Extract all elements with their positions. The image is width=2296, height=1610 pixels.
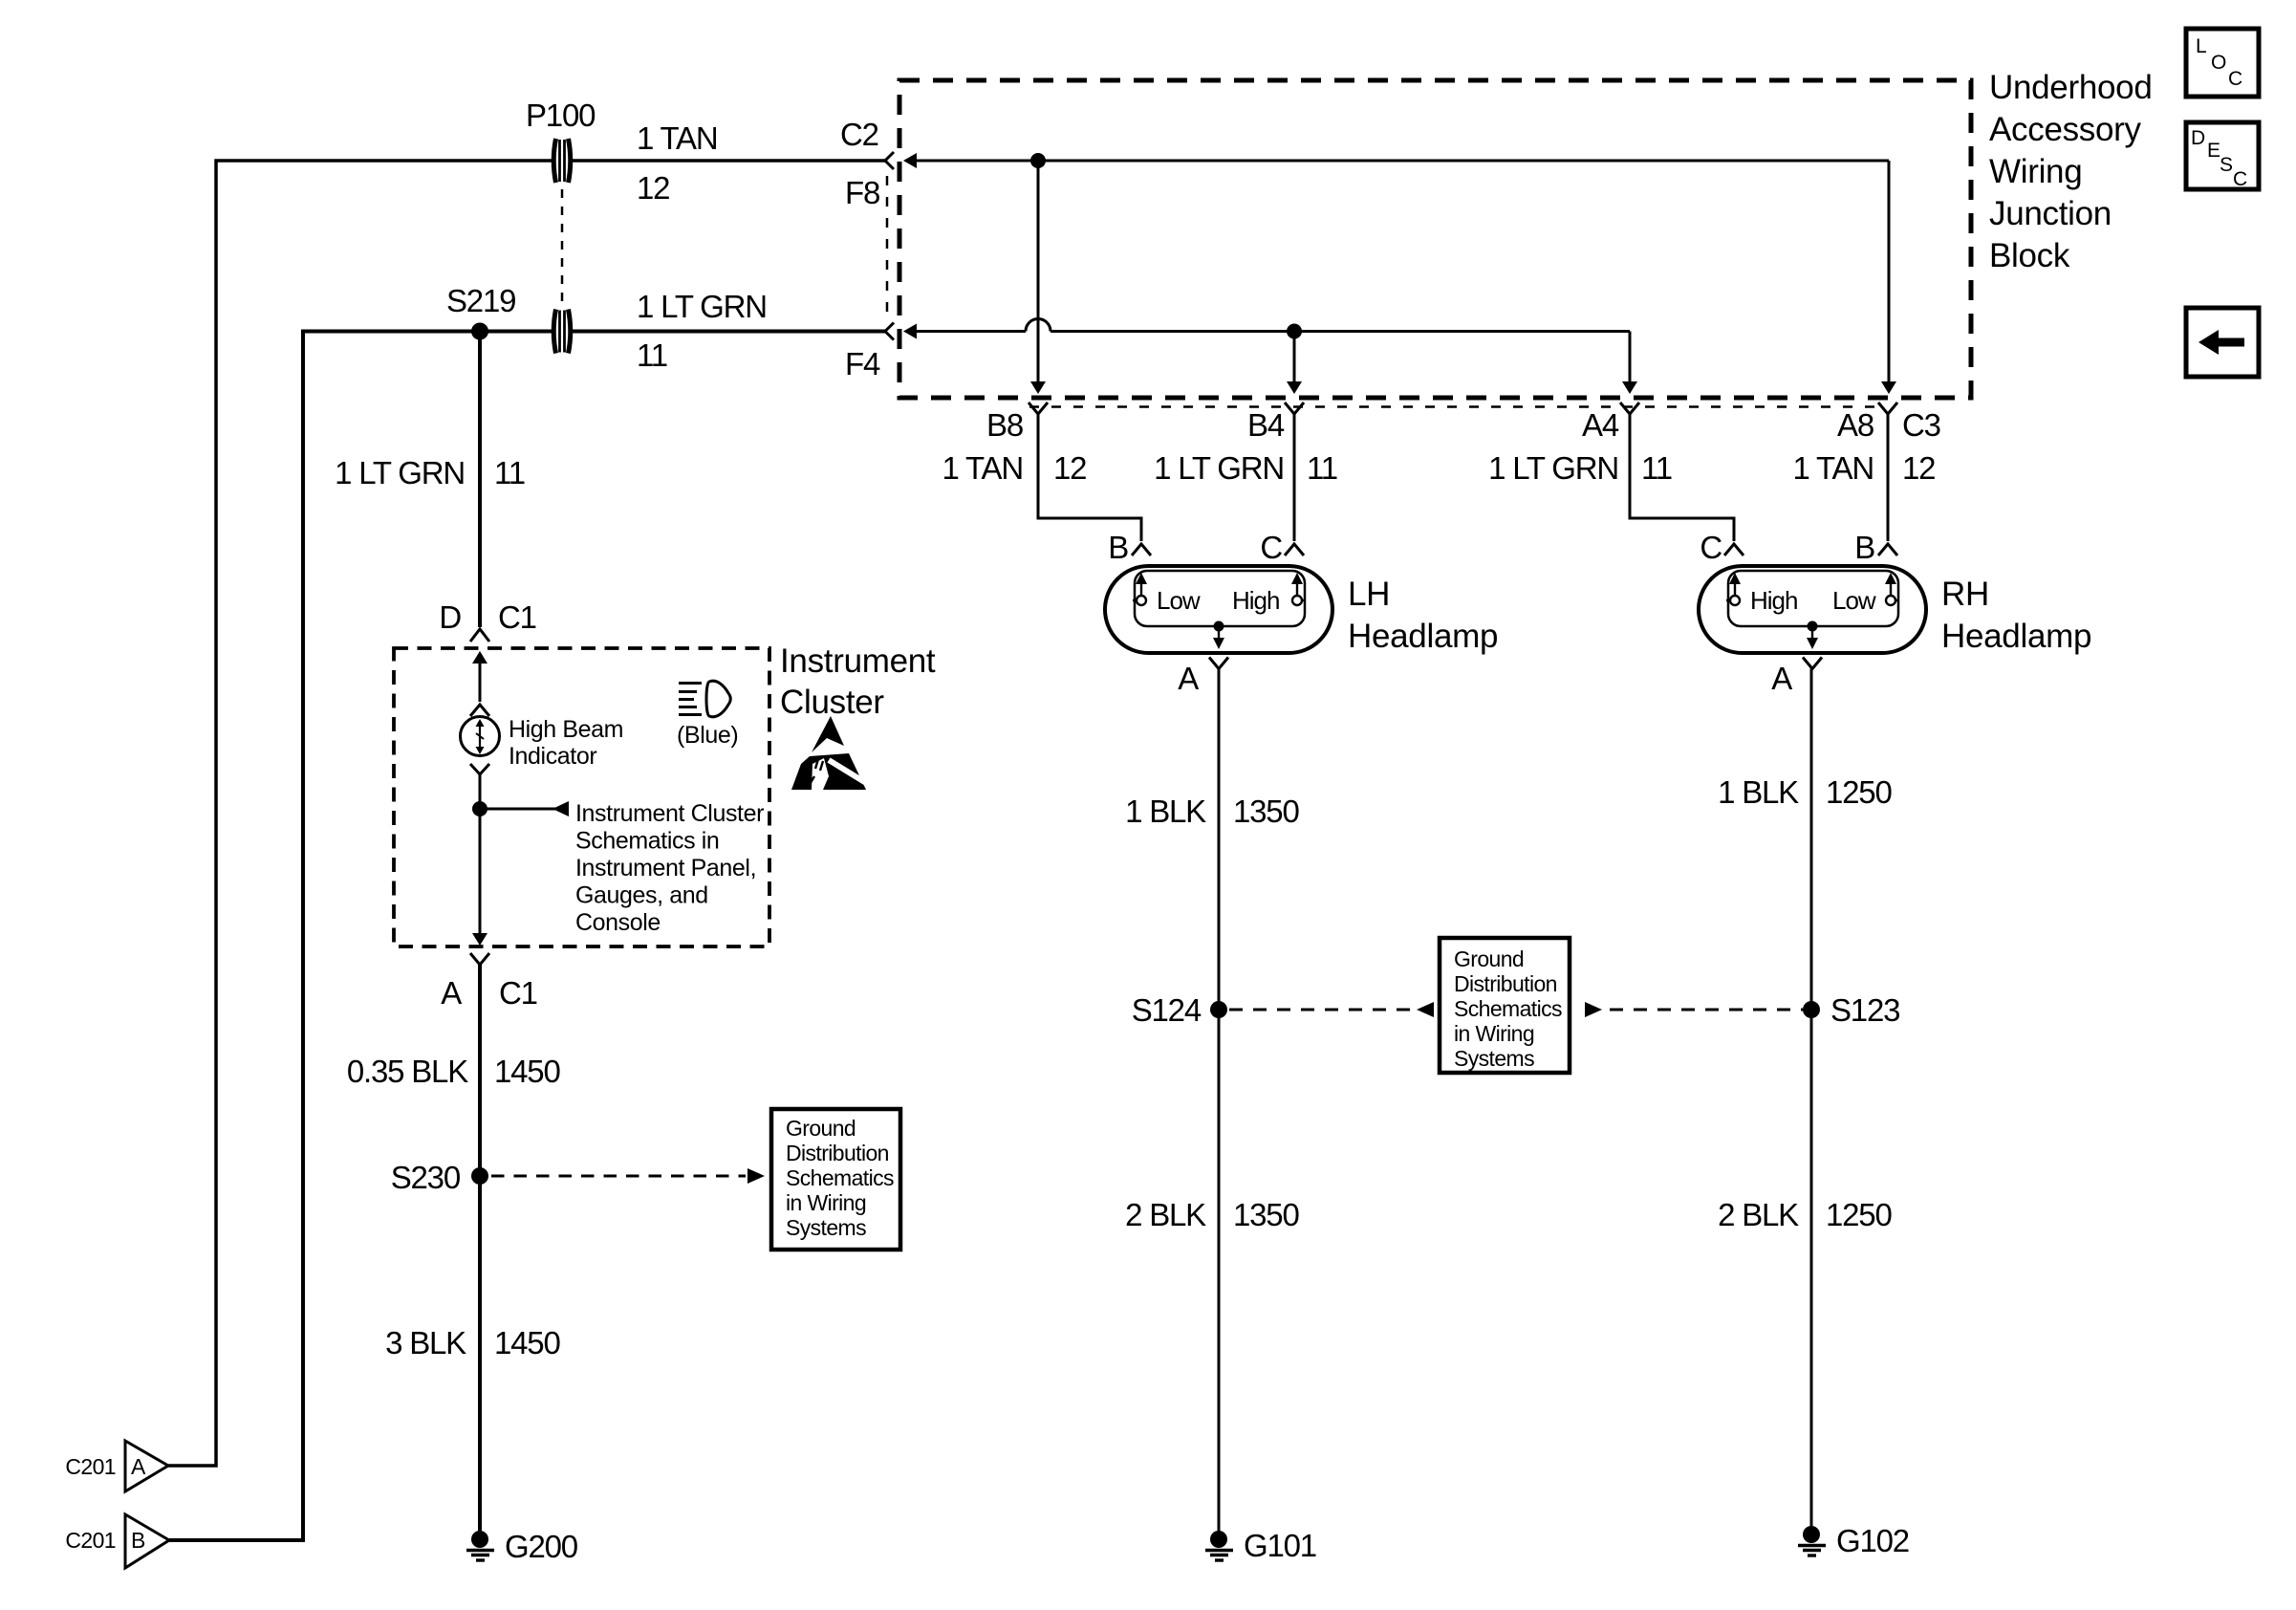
svg-text:A: A <box>1771 661 1792 696</box>
pin B8 chevron <box>1029 402 1048 414</box>
label B4 <box>1247 407 1285 443</box>
svg-text:C: C <box>1260 530 1282 565</box>
RH pin chevrons <box>1724 544 1897 555</box>
svg-text:D: D <box>2191 127 2205 149</box>
junction block title <box>1989 69 2153 274</box>
svg-text:11: 11 <box>1307 450 1337 486</box>
wire inside junction block (top, from C2) <box>903 153 1896 394</box>
wire 1 LT GRN from C201 B through S219 to F4 <box>169 332 886 1541</box>
LH headlamp body <box>1105 566 1332 653</box>
label 0.35 BLK 1450 <box>347 1054 561 1089</box>
label 1 BLK 1350 <box>1125 794 1299 829</box>
label 1 TAN 12 (A8) <box>1793 450 1936 486</box>
svg-text:1 TAN: 1 TAN <box>1793 450 1874 486</box>
instrument cluster dashed box <box>394 648 769 946</box>
svg-text:2 BLK: 2 BLK <box>1125 1197 1206 1232</box>
node S219 <box>446 283 515 340</box>
svg-text:Instrument Cluster: Instrument Cluster <box>575 800 764 827</box>
pin letter C (RH) <box>1700 530 1722 565</box>
label 1 LT GRN 11 (vertical wire) <box>335 455 525 490</box>
high beam indicator icon (Blue) <box>677 681 738 749</box>
dashed leader note to S123 <box>1585 1002 1803 1017</box>
svg-text:Instrument: Instrument <box>780 642 936 680</box>
label 1 TAN 12 (B8) <box>942 450 1087 486</box>
svg-text:RH: RH <box>1941 576 1989 613</box>
label 1 LT GRN 11 (A4) <box>1488 450 1672 486</box>
LH pin chevrons <box>1132 544 1304 555</box>
pin A8 chevron <box>1878 402 1897 414</box>
svg-text:1350: 1350 <box>1233 794 1299 829</box>
pin letter C (LH) <box>1260 530 1282 565</box>
wire inside junction block (second, from F4) <box>903 319 1637 395</box>
svg-text:A: A <box>131 1454 146 1479</box>
svg-text:12: 12 <box>1902 450 1935 486</box>
svg-text:Junction: Junction <box>1989 195 2112 232</box>
svg-text:S230: S230 <box>391 1160 461 1195</box>
svg-text:G102: G102 <box>1836 1523 1909 1558</box>
pin letter B (LH) <box>1108 530 1128 565</box>
svg-text:S: S <box>2220 154 2233 176</box>
label 1 BLK 1250 <box>1718 774 1892 810</box>
label A4 <box>1582 407 1619 443</box>
svg-text:1 LT GRN: 1 LT GRN <box>1154 450 1284 486</box>
svg-text:Distribution: Distribution <box>1454 971 1557 996</box>
ground G101 <box>1205 1528 1316 1563</box>
svg-text:in Wiring: in Wiring <box>786 1190 866 1215</box>
svg-text:11: 11 <box>1641 450 1672 486</box>
wire LH headlamp A to G101 <box>1218 669 1221 1532</box>
svg-text:1250: 1250 <box>1826 1197 1892 1232</box>
LH headlamp filament labels <box>1157 586 1279 615</box>
svg-text:12: 12 <box>637 170 669 206</box>
node S123 <box>1803 992 1899 1028</box>
pin B4 chevron <box>1285 402 1304 414</box>
svg-text:A: A <box>1178 661 1199 696</box>
svg-text:Schematics: Schematics <box>1454 996 1562 1021</box>
svg-text:B4: B4 <box>1247 407 1285 443</box>
pin C2 label <box>840 117 878 152</box>
svg-text:Gauges, and: Gauges, and <box>575 882 708 909</box>
svg-text:11: 11 <box>494 455 525 490</box>
svg-text:Wiring: Wiring <box>1989 153 2082 190</box>
high beam indicator lamp <box>461 651 624 774</box>
svg-text:L: L <box>2196 35 2206 57</box>
junction dot B4 feed <box>1287 324 1302 395</box>
LH headlamp pin A chevron <box>1178 658 1228 697</box>
RH headlamp pin A chevron <box>1771 658 1822 697</box>
ground distribution note box (left) <box>771 1109 900 1250</box>
wire high beam indicator to junction <box>479 774 482 809</box>
svg-text:1 TAN: 1 TAN <box>637 120 717 156</box>
svg-text:S124: S124 <box>1132 992 1202 1028</box>
DESC reference box <box>2186 122 2259 190</box>
label 2 BLK 1350 <box>1125 1197 1299 1232</box>
pin F4 label <box>845 346 880 381</box>
svg-text:0.35 BLK: 0.35 BLK <box>347 1054 468 1089</box>
svg-text:A: A <box>441 975 462 1011</box>
dashed leader S230 to ground note <box>491 1168 765 1184</box>
node S230 <box>391 1160 488 1195</box>
svg-text:E: E <box>2207 140 2220 162</box>
svg-text:1 LT GRN: 1 LT GRN <box>1488 450 1618 486</box>
svg-text:11: 11 <box>637 337 667 373</box>
ground distribution note box (middle) <box>1440 938 1570 1073</box>
svg-text:C1: C1 <box>498 599 536 635</box>
svg-text:C2: C2 <box>840 117 878 152</box>
wire RH headlamp A to G102 <box>1810 669 1813 1527</box>
svg-text:1 BLK: 1 BLK <box>1125 794 1206 829</box>
svg-text:1450: 1450 <box>494 1054 560 1089</box>
ESD sensitivity symbol <box>791 716 871 790</box>
svg-text:P100: P100 <box>526 98 596 133</box>
svg-text:C: C <box>2233 168 2247 190</box>
node S124 <box>1132 992 1227 1028</box>
svg-text:2 BLK: 2 BLK <box>1718 1197 1799 1232</box>
pin C2 chevron <box>885 152 894 169</box>
svg-text:3 BLK: 3 BLK <box>385 1325 466 1360</box>
svg-text:Schematics in: Schematics in <box>575 828 719 855</box>
svg-text:Systems: Systems <box>786 1215 866 1240</box>
svg-text:High: High <box>1232 586 1279 615</box>
label 2 BLK 1250 <box>1718 1197 1892 1232</box>
svg-text:12: 12 <box>1053 450 1086 486</box>
svg-text:O: O <box>2211 52 2226 74</box>
wire 1 TAN from C201 A to C2 <box>168 161 886 1466</box>
wire from S219 down to instrument cluster <box>478 332 482 628</box>
pin D C1 (instrument cluster top) <box>439 599 535 642</box>
LH headlamp label <box>1348 576 1498 655</box>
svg-text:in Wiring: in Wiring <box>1454 1021 1534 1046</box>
RH headlamp body <box>1699 566 1926 653</box>
svg-text:G101: G101 <box>1244 1528 1316 1563</box>
wire A8 to RH headlamp pin B <box>1887 414 1890 541</box>
svg-text:1 TAN: 1 TAN <box>942 450 1023 486</box>
svg-text:Console: Console <box>575 909 661 936</box>
svg-text:F4: F4 <box>845 346 880 381</box>
svg-text:1 LT GRN: 1 LT GRN <box>335 455 465 490</box>
svg-text:1350: 1350 <box>1233 1197 1299 1232</box>
svg-text:Ground: Ground <box>1454 946 1524 971</box>
svg-text:S219: S219 <box>446 283 515 318</box>
svg-text:C: C <box>1700 530 1722 565</box>
wire A4 to RH headlamp pin C <box>1630 414 1734 541</box>
label 1 LT GRN 11 (second wire) <box>637 289 767 373</box>
back arrow box <box>2186 308 2259 377</box>
svg-text:B: B <box>131 1528 145 1553</box>
svg-text:Underhood: Underhood <box>1989 69 2153 106</box>
svg-text:Instrument Panel,: Instrument Panel, <box>575 855 756 881</box>
svg-text:Low: Low <box>1157 586 1201 615</box>
label 1 TAN 12 (top wire) <box>637 120 717 206</box>
RH headlamp label <box>1941 576 2091 655</box>
svg-text:C1: C1 <box>499 975 537 1011</box>
instrument cluster title <box>780 642 936 721</box>
svg-text:1 BLK: 1 BLK <box>1718 774 1799 810</box>
connector line C2/C3 under junction block <box>1029 405 1874 408</box>
svg-text:1 LT GRN: 1 LT GRN <box>637 289 767 324</box>
connector C201 A <box>65 1441 168 1491</box>
label B8 <box>986 407 1023 443</box>
svg-text:Ground: Ground <box>786 1116 856 1141</box>
svg-text:Indicator: Indicator <box>509 743 596 770</box>
svg-text:Distribution: Distribution <box>786 1141 889 1165</box>
svg-text:(Blue): (Blue) <box>677 722 738 749</box>
dashed leader S124 to note <box>1229 1002 1434 1017</box>
svg-text:A4: A4 <box>1582 407 1619 443</box>
instrument cluster note text <box>575 800 764 936</box>
svg-text:A8: A8 <box>1837 407 1874 443</box>
junction dot in instrument cluster <box>472 801 487 816</box>
connector C201 B <box>65 1514 169 1568</box>
svg-text:Accessory: Accessory <box>1989 111 2142 148</box>
svg-text:Low: Low <box>1832 586 1876 615</box>
svg-text:High: High <box>1750 586 1797 615</box>
svg-text:G200: G200 <box>505 1529 578 1564</box>
svg-text:High Beam: High Beam <box>509 716 623 743</box>
svg-text:B8: B8 <box>986 407 1023 443</box>
svg-text:1450: 1450 <box>494 1325 560 1360</box>
svg-text:C201: C201 <box>65 1528 116 1553</box>
svg-text:C3: C3 <box>1902 407 1940 443</box>
svg-text:LH: LH <box>1348 576 1390 613</box>
LOC reference box <box>2186 29 2259 97</box>
connector C2 face line (F8 to F4) <box>886 176 889 317</box>
ground G102 <box>1798 1523 1909 1558</box>
svg-text:C: C <box>2228 68 2242 90</box>
leader to instrument cluster note <box>480 801 569 816</box>
svg-text:B: B <box>1854 530 1874 565</box>
connector P100 (inline, both wires) <box>526 98 596 354</box>
wire down to cluster bottom <box>472 809 487 946</box>
label A8 C3 <box>1837 407 1940 443</box>
svg-text:1250: 1250 <box>1826 774 1892 810</box>
RH headlamp filament labels <box>1750 586 1876 615</box>
wire B8 to LH headlamp pin B <box>1038 414 1141 541</box>
svg-text:Headlamp: Headlamp <box>1348 618 1498 655</box>
svg-text:C201: C201 <box>65 1454 116 1479</box>
pin F4 chevron <box>885 323 894 340</box>
pin F8 label <box>845 175 879 210</box>
label 1 LT GRN 11 (B4) <box>1154 450 1337 486</box>
pin letter B (RH) <box>1854 530 1874 565</box>
svg-text:Schematics: Schematics <box>786 1165 894 1190</box>
svg-text:F8: F8 <box>845 175 879 210</box>
underhood accessory wiring junction block dashed box <box>899 80 1971 398</box>
svg-text:Systems: Systems <box>1454 1046 1534 1071</box>
wire B4 to LH headlamp pin C <box>1293 414 1296 541</box>
svg-text:Cluster: Cluster <box>780 684 884 721</box>
svg-text:D: D <box>439 599 461 635</box>
svg-text:Block: Block <box>1989 237 2070 274</box>
label 3 BLK 1450 <box>385 1325 560 1360</box>
wire instrument cluster to G200 <box>478 965 482 1531</box>
junction dot B8 feed <box>1030 153 1046 394</box>
svg-text:S123: S123 <box>1830 992 1899 1028</box>
ground G200 <box>466 1529 578 1564</box>
svg-text:Headlamp: Headlamp <box>1941 618 2091 655</box>
pin A4 chevron <box>1620 402 1639 414</box>
svg-text:B: B <box>1108 530 1128 565</box>
pin A C1 (instrument cluster bottom) <box>441 953 537 1011</box>
